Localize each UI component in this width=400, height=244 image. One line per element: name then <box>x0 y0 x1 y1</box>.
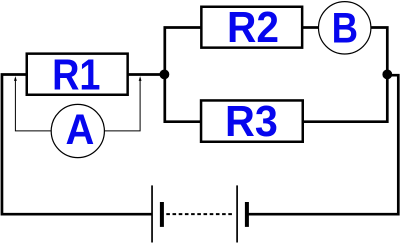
wire: R1 right lead to middle junction <box>129 73 167 76</box>
node: left junction <box>160 70 170 80</box>
wire: battery right to bottom-right corner, right rail up, jog to right junction <box>247 75 398 214</box>
battery dashed link <box>166 213 233 215</box>
node: right junction <box>382 70 392 80</box>
resistor R3 <box>201 97 303 145</box>
battery cell 1 short thick plate <box>160 202 164 227</box>
ammeter A <box>51 104 104 157</box>
meter B <box>319 2 371 54</box>
battery cell 2 short thick plate <box>245 202 249 227</box>
wire: R1 left lead, left rail, bottom rail to battery <box>2 75 153 215</box>
battery cell 1 long plate <box>151 185 153 242</box>
svg-text:R1: R1 <box>52 50 100 99</box>
svg-text:A: A <box>65 105 94 154</box>
battery cell 2 long plate <box>236 185 238 242</box>
ammeter A leads with arrows <box>14 76 142 131</box>
wire: R2 right lead to meter B <box>303 26 319 29</box>
svg-text:R3: R3 <box>225 97 278 145</box>
resistor R1 <box>27 50 128 99</box>
svg-text:R2: R2 <box>227 3 279 52</box>
wire: meter B right lead, right branch vertical, R3 right lead <box>304 28 388 122</box>
wire: middle vertical with R2 and R3 left leads <box>165 28 201 122</box>
svg-text:B: B <box>332 5 358 52</box>
resistor R2 <box>201 3 302 52</box>
